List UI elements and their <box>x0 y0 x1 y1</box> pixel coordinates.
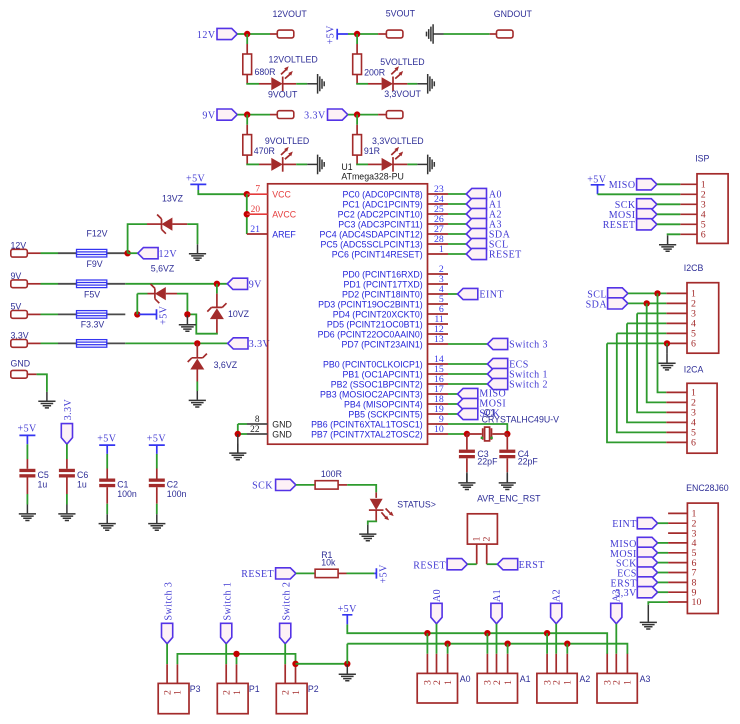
svg-text:GNDOUT: GNDOUT <box>494 9 533 19</box>
svg-text:9VOLTLED: 9VOLTLED <box>265 136 309 146</box>
A0 pin 3 <box>426 654 428 674</box>
wire GND pins junction <box>237 424 239 434</box>
svg-text:100n: 100n <box>167 489 187 499</box>
svg-text:1: 1 <box>623 680 634 685</box>
svg-text:470R: 470R <box>254 146 275 156</box>
svg-text:1: 1 <box>439 244 444 255</box>
svg-text:C1: C1 <box>117 479 128 489</box>
wire 3.3V to C6 <box>66 444 68 459</box>
flag SDA <box>608 298 628 309</box>
svg-text:PD6 (PCINT22OC0AAIN0): PD6 (PCINT22OC0AAIN0) <box>318 329 423 339</box>
svg-text:RESET: RESET <box>603 220 636 231</box>
flag MISO <box>458 388 478 399</box>
junction (3.3V net) <box>194 340 200 346</box>
pin PC6 1 <box>428 253 449 255</box>
wire A1 flag to pin2 <box>496 624 498 654</box>
svg-text:I2CA: I2CA <box>684 364 704 374</box>
svg-text:MISO: MISO <box>609 180 636 191</box>
junction (ground node) <box>184 311 190 317</box>
svg-text:PD5 (PCINT21OC0BT1): PD5 (PCINT21OC0BT1) <box>327 319 423 329</box>
svg-text:6: 6 <box>701 230 706 241</box>
svg-text:P3: P3 <box>190 684 201 694</box>
A1 pin 2 <box>496 654 498 674</box>
svg-text:22: 22 <box>250 425 260 435</box>
pin AREF 21 <box>247 233 268 235</box>
svg-text:A2: A2 <box>580 674 591 684</box>
junction +5V bus at A0 pin3 <box>424 630 430 636</box>
flag SCL <box>466 238 486 249</box>
ENC28J60 pin 8 <box>668 581 687 583</box>
svg-text:U1: U1 <box>341 162 352 172</box>
svg-text:F3.3V: F3.3V <box>81 319 105 329</box>
P1 pin 2 <box>225 664 227 683</box>
wire I2CB pin5 <box>617 332 667 334</box>
wire P2 pin1 to ground node <box>296 663 348 665</box>
I2CB pin 3 <box>666 312 687 314</box>
junction I2CB pin6 <box>664 340 670 346</box>
flag A0 <box>466 188 486 199</box>
ENC28J60 pin 4 <box>668 542 687 544</box>
wire zener to ground <box>196 370 198 382</box>
wire A2 net <box>448 213 466 215</box>
wire ECS to ENC28J60 <box>658 572 669 574</box>
svg-text:PB0 (PCINT0CLKOICP1): PB0 (PCINT0CLKOICP1) <box>323 359 423 369</box>
ground <box>99 514 116 530</box>
wire A2 pin3 riser <box>546 633 548 654</box>
svg-text:7: 7 <box>255 185 260 195</box>
flag MOSI <box>637 209 657 220</box>
svg-text:Switch 1: Switch 1 <box>222 582 233 621</box>
svg-text:10k: 10k <box>321 558 336 568</box>
pad 5V <box>11 311 28 319</box>
wire A0 pin1 riser <box>447 644 449 654</box>
pad 9VOUT <box>277 111 294 119</box>
fuse F9V <box>58 280 125 288</box>
I2CA pin 6 <box>666 441 687 443</box>
wire 9V to zener 10VZ <box>216 284 218 294</box>
flag Switch 3 (down) <box>162 623 173 644</box>
wire junction to ground <box>237 434 239 453</box>
I2CA pin 1 <box>666 391 687 393</box>
ground <box>189 244 206 260</box>
connector I2CA body <box>687 383 717 453</box>
pad 5VOUT <box>386 30 403 38</box>
pin PB6 9 <box>428 423 449 425</box>
svg-text:AVCC: AVCC <box>272 210 296 220</box>
wire A1 pin3 riser <box>486 633 488 654</box>
svg-text:RESET: RESET <box>413 560 446 571</box>
pin PB1 15 <box>428 373 449 375</box>
ground <box>307 155 324 175</box>
wire +5V to VCC <box>198 190 246 194</box>
svg-text:Switch 2: Switch 2 <box>281 582 292 621</box>
flag A3 (down) <box>611 603 622 624</box>
svg-text:A1: A1 <box>492 589 503 602</box>
ground <box>58 505 75 521</box>
I2CA pin 2 <box>666 401 687 403</box>
svg-text:F12V: F12V <box>87 229 108 239</box>
pad GNDOUT <box>497 30 514 38</box>
junction ground bus at A2 pin1 <box>564 641 570 647</box>
A2 pin 3 <box>546 654 548 674</box>
flag ECS <box>487 358 507 369</box>
svg-text:10VZ: 10VZ <box>228 309 250 319</box>
svg-text:+5V: +5V <box>159 305 170 325</box>
connector P1 body <box>217 683 248 713</box>
svg-text:RESET: RESET <box>241 569 274 580</box>
svg-text:PD0 (PCINT16RXD): PD0 (PCINT16RXD) <box>343 269 423 279</box>
wire GND pad to ground <box>27 373 36 375</box>
svg-text:12VOLTLED: 12VOLTLED <box>269 54 318 64</box>
ENC28J60 pin 3 <box>668 532 687 534</box>
wire C5 to ground <box>26 478 28 495</box>
zener 5,6VZ <box>151 284 166 303</box>
pin PD3 5 <box>428 303 449 305</box>
flag 9V <box>217 109 237 120</box>
svg-text:22pF: 22pF <box>518 456 539 466</box>
svg-text:PB2 (SSOC1BPCINT2): PB2 (SSOC1BPCINT2) <box>331 379 423 389</box>
wire PB7 to crystal left <box>448 433 467 435</box>
wire SCK to ISP <box>657 203 680 205</box>
wire LED to ground <box>283 163 297 165</box>
pin GND 22 <box>247 433 268 435</box>
wire C4 to ground <box>506 458 508 472</box>
svg-text:A1: A1 <box>520 674 531 684</box>
A3 pin 3 <box>606 654 608 674</box>
pad 3,3VOUT <box>386 111 403 119</box>
connector A0 body <box>417 673 457 703</box>
svg-text:PB3 (MOSIOC2APCINT3): PB3 (MOSIOC2APCINT3) <box>320 389 423 399</box>
svg-text:12VOUT: 12VOUT <box>273 9 308 19</box>
ground <box>659 235 676 251</box>
zener 13VZ <box>157 215 172 234</box>
ISP pin 5 <box>680 223 697 225</box>
svg-text:PD4 (PCINT20XCKT0): PD4 (PCINT20XCKT0) <box>333 309 423 319</box>
resistor R1 10k <box>315 569 338 577</box>
svg-text:ENC28J60: ENC28J60 <box>686 483 729 493</box>
svg-text:P1: P1 <box>249 684 260 694</box>
I2CA pin 5 <box>666 431 687 433</box>
svg-text:+5V: +5V <box>338 604 358 615</box>
svg-text:3.3V: 3.3V <box>304 110 326 121</box>
svg-text:9V: 9V <box>202 110 215 121</box>
ISP pin 3 <box>680 203 697 205</box>
wire 3,3V to ENC28J60 <box>658 591 669 593</box>
wire bus I2CB pin4 to I2CA pin4 <box>627 323 666 422</box>
junction +5V bus at A2 pin3 <box>544 630 550 636</box>
wire A3 flag to pin2 <box>615 624 617 654</box>
svg-text:I2CB: I2CB <box>684 263 704 273</box>
ground <box>417 74 434 94</box>
svg-text:1: 1 <box>563 680 574 685</box>
svg-text:PB6 (PCINT6XTAL1TOSC1): PB6 (PCINT6XTAL1TOSC1) <box>311 419 423 429</box>
flag ERST <box>497 559 517 570</box>
wire C2 to ground <box>156 487 158 504</box>
flag MISO <box>637 537 657 548</box>
svg-text:100n: 100n <box>117 489 137 499</box>
svg-text:1: 1 <box>443 680 454 685</box>
connector ENC28J60 body <box>687 503 718 613</box>
P1 pin 1 <box>236 664 238 683</box>
I2CA pin 3 <box>666 411 687 413</box>
ENC28J60 pin 5 <box>668 552 687 554</box>
wire A0 net <box>448 193 466 195</box>
flag A2 <box>466 208 486 219</box>
wire ENC28J60 pin10 to ground <box>648 602 668 605</box>
ENC28J60 pin 6 <box>668 562 687 564</box>
connector ISP body <box>697 174 728 244</box>
wire Switch 1 net <box>448 373 487 375</box>
flag SCK <box>637 199 657 210</box>
svg-text:1u: 1u <box>77 479 87 489</box>
svg-text:1: 1 <box>173 690 184 695</box>
svg-text:PD1 (PCINT17TXD): PD1 (PCINT17TXD) <box>344 279 423 289</box>
svg-text:A3: A3 <box>612 589 623 602</box>
flag 3.3V <box>328 109 348 120</box>
wire A1 net <box>448 203 466 205</box>
pin PD5 11 <box>428 323 449 325</box>
pin 2 <box>486 544 488 564</box>
svg-text:12V: 12V <box>197 30 216 41</box>
flag A1 (down) <box>491 603 502 624</box>
LED 5VOLTLED <box>382 66 404 91</box>
wire A2 pin1 riser <box>566 644 568 654</box>
flag 12V <box>138 248 158 259</box>
svg-text:PD2 (PCINT18INT0): PD2 (PCINT18INT0) <box>342 289 423 299</box>
flag EINT <box>637 518 657 529</box>
fuse F12V <box>58 249 125 257</box>
svg-text:VCC: VCC <box>272 190 291 200</box>
pin PD6 12 <box>428 333 449 335</box>
svg-text:3.3V: 3.3V <box>63 398 74 420</box>
P3 pin 2 <box>166 664 168 683</box>
svg-text:+5V: +5V <box>186 173 206 184</box>
ENC28J60 pin 2 <box>668 522 687 524</box>
flag 3.3V (down) <box>61 424 72 445</box>
ground <box>189 391 206 407</box>
flag Switch 1 <box>487 368 507 379</box>
pad GND <box>11 370 28 378</box>
svg-text:1: 1 <box>232 690 243 695</box>
crystal pin marks <box>481 437 483 439</box>
wire to resistor 91R <box>356 115 358 125</box>
wire SCK net <box>448 413 458 415</box>
wire P1 pin1 riser <box>236 654 238 664</box>
capacitor C3 <box>466 434 468 450</box>
wire zener to ground node <box>216 319 218 334</box>
svg-text:12V: 12V <box>159 249 178 260</box>
ground <box>19 505 36 521</box>
wire ground bus to A-connectors <box>347 644 627 654</box>
P2 pin 2 <box>284 664 286 683</box>
svg-text:91R: 91R <box>364 146 380 156</box>
wire C1 to ground <box>106 487 108 504</box>
resistor 200R <box>353 54 362 75</box>
flag Switch 3 <box>487 338 507 349</box>
svg-text:Switch 2: Switch 2 <box>509 379 548 390</box>
junction +5V bus at A1 pin3 <box>484 630 490 636</box>
ISP pin 6 <box>680 233 697 235</box>
junction <box>244 31 250 37</box>
wire 3.3V to zener 3,6VZ <box>196 343 198 357</box>
wire +5V to C2 <box>156 454 158 469</box>
junction ground bus at A0 pin1 <box>444 641 450 647</box>
LED 12VOLTLED <box>271 66 293 91</box>
resistor 680R <box>243 54 252 75</box>
wire Switch 2 to P2 pin2 <box>284 644 286 664</box>
junction I2CB pin2 <box>644 300 650 306</box>
ISP pin 1 <box>680 183 697 185</box>
wire LED to ground <box>375 510 377 521</box>
pin PD4 6 <box>428 313 449 315</box>
wire ERST to ENC28J60 <box>658 581 669 583</box>
pin PC2 25 <box>428 213 449 215</box>
flag Switch 1 (down) <box>221 623 232 644</box>
svg-text:EINT: EINT <box>612 519 637 530</box>
zener 10VZ <box>207 303 226 319</box>
wire resistor to LED <box>356 155 358 164</box>
connector P3 body <box>158 683 189 713</box>
I2CB pin 6 <box>666 342 687 344</box>
svg-text:680R: 680R <box>255 67 276 77</box>
flag SCK <box>276 479 296 490</box>
ground <box>658 354 675 370</box>
wire resistor to +5V <box>338 572 346 574</box>
wire switch-ground bus <box>177 654 295 664</box>
ENC28J60 pin 10 <box>668 601 687 603</box>
A2 pin 1 <box>566 654 568 674</box>
svg-text:GND: GND <box>272 429 292 439</box>
junction VCC <box>244 191 250 197</box>
pin PD2 4 <box>428 293 449 295</box>
svg-text:10: 10 <box>692 597 702 608</box>
flag MISO <box>637 179 657 190</box>
svg-text:+5V: +5V <box>587 174 607 185</box>
pin AVCC 20 <box>247 213 268 215</box>
resistor 470R <box>243 135 252 156</box>
resistor 91R <box>353 135 362 156</box>
wire +5V to C1 <box>106 454 108 469</box>
flag RESET <box>466 248 486 259</box>
junction I2CB pin1 <box>654 290 660 296</box>
svg-text:5VOLTLED: 5VOLTLED <box>380 57 424 67</box>
wire PB6 to crystal right <box>448 424 507 434</box>
svg-text:GND: GND <box>11 359 31 369</box>
flag RESET <box>276 568 296 579</box>
A2 pin 2 <box>555 654 557 674</box>
flag A1 <box>466 198 486 209</box>
I2CB pin 4 <box>666 322 687 324</box>
wire bus I2CB pin6 to I2CA pin6 <box>607 343 666 442</box>
wire to resistor R-680R <box>246 34 248 44</box>
A1 pin 1 <box>507 654 509 674</box>
svg-text:2: 2 <box>432 680 443 685</box>
svg-text:+5V: +5V <box>18 424 38 435</box>
wire bus I2CB pin2 to I2CA pin2 <box>647 303 667 402</box>
wire to resistor 470R <box>246 115 248 125</box>
wire A1 pin1 riser <box>507 644 509 654</box>
wire +5V to A-connector supply bus <box>347 624 607 654</box>
I2CB pin 1 <box>666 292 687 294</box>
flag 3.3V <box>228 338 248 349</box>
svg-text:PC5 (ADC5SCLPCINT13): PC5 (ADC5SCLPCINT13) <box>321 239 423 249</box>
P3 pin 1 <box>176 664 178 683</box>
svg-text:2: 2 <box>482 537 493 542</box>
wire A0 pin3 riser <box>426 633 428 654</box>
svg-text:P2: P2 <box>308 684 319 694</box>
ground (GNDOUT, facing left) <box>427 24 444 44</box>
wire 3,3V pad to fuse <box>27 342 40 344</box>
flag EINT <box>458 288 478 299</box>
pad 9V <box>11 280 28 288</box>
LED 3,3VOLTLED <box>382 147 404 172</box>
wire RESET to pin1 <box>467 563 476 565</box>
wire resistor to LED <box>246 155 248 164</box>
IC U1 body <box>268 184 428 444</box>
svg-text:EINT: EINT <box>479 289 504 300</box>
wire +5V to pad 5VOUT <box>348 33 378 35</box>
svg-text:AREF: AREF <box>272 230 296 240</box>
connector AVR_ENC_RST body <box>467 514 497 544</box>
pin PD7 13 <box>428 343 449 345</box>
resistor 100R <box>315 481 338 489</box>
ISP pin 2 <box>680 193 697 195</box>
pin PC3 26 <box>428 223 449 225</box>
svg-text:13: 13 <box>434 334 444 345</box>
flag ERST <box>637 577 657 588</box>
junction P2 pin1 <box>292 661 298 667</box>
wire EINT to ENC28J60 <box>658 522 669 524</box>
svg-text:C2: C2 <box>167 479 178 489</box>
pin PC4 27 <box>428 233 449 235</box>
pin PB7 10 <box>428 433 449 435</box>
wire SCL to I2CB pin1 <box>628 292 666 294</box>
junction (9V net) <box>214 281 220 287</box>
pin VCC 7 <box>247 193 268 195</box>
capacitor C4 <box>506 434 508 450</box>
P2 pin 1 <box>295 664 297 683</box>
wire I2CB pin6 to ground <box>666 343 668 345</box>
svg-text:PD3 (PCINT19OC2BINT1): PD3 (PCINT19OC2BINT1) <box>318 299 423 309</box>
svg-text:ERST: ERST <box>519 560 545 571</box>
pin PB2 16 <box>428 383 449 385</box>
wire LED to ground <box>283 83 297 85</box>
svg-text:3,3VOUT: 3,3VOUT <box>384 89 421 99</box>
svg-text:20: 20 <box>251 205 261 215</box>
svg-text:PB5 (SCKPCINT5): PB5 (SCKPCINT5) <box>348 409 422 419</box>
A1 pin 3 <box>486 654 488 674</box>
ground <box>499 474 516 490</box>
svg-text:A0: A0 <box>432 589 443 602</box>
pad 12V <box>11 249 28 257</box>
wire A0 flag to pin2 <box>436 624 438 654</box>
svg-text:Switch 3: Switch 3 <box>163 582 174 621</box>
wire Switch 3 to P3 pin2 <box>166 644 168 664</box>
wire LED to ground <box>393 163 407 165</box>
svg-text:A3: A3 <box>640 674 651 684</box>
wire RESET to ISP <box>657 223 680 225</box>
svg-text:AVR_ENC_RST: AVR_ENC_RST <box>477 493 541 503</box>
pin PC0 23 <box>428 193 449 195</box>
pin PD1 3 <box>428 283 449 285</box>
wire ECS net <box>448 363 487 365</box>
svg-text:6: 6 <box>691 438 696 449</box>
wire 9V to pad <box>237 114 270 116</box>
wire junction to 12V flag <box>128 252 138 254</box>
wire ground to pad <box>444 33 490 35</box>
LED STATUS <box>369 499 394 521</box>
flag 12V <box>217 28 237 39</box>
